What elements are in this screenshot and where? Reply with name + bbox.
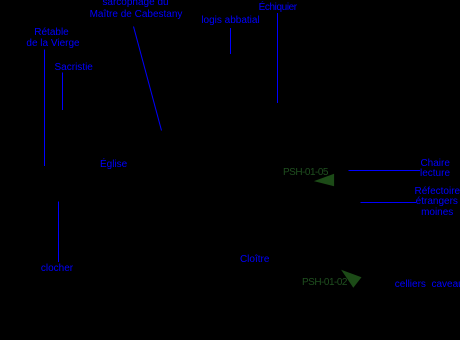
wire leader Sacristie bbox=[62, 73, 64, 111]
node label Maitre de Cabestany (line 2) bbox=[90, 10, 183, 20]
node label Retable (line 1) bbox=[34, 28, 68, 38]
node label logis abbatial bbox=[201, 16, 259, 26]
arrow hotspot PSH-01-05 bbox=[314, 174, 334, 187]
arrow hotspot PSH-01-02 bbox=[341, 270, 361, 288]
node label PSH-01-02 (green hotspot id) bbox=[302, 278, 347, 288]
wire leader logis abbatial bbox=[230, 28, 232, 54]
node label celliers caveau bbox=[395, 280, 460, 290]
node label sarcophage du (line 1) bbox=[102, 0, 168, 8]
node label Cloitre bbox=[240, 255, 269, 265]
node label clocher bbox=[41, 264, 73, 274]
wire leader Chaire lecture bbox=[349, 170, 421, 172]
node label lecture (line 2) bbox=[420, 169, 450, 179]
wire leader sarcophage (diagonal) bbox=[134, 27, 162, 131]
wire leader Echiquier bbox=[277, 13, 279, 103]
node label etrangers (line 2) bbox=[416, 197, 458, 207]
node label Eglise bbox=[100, 160, 127, 170]
node label Refectoire (line 1) bbox=[415, 187, 460, 197]
node label Sacristie bbox=[55, 63, 93, 73]
node label Chaire (line 1) bbox=[420, 159, 449, 169]
wire leader Refectoire bbox=[361, 202, 417, 204]
node label de la Vierge (line 2) bbox=[26, 39, 79, 49]
node label PSH-01-05 (green hotspot id) bbox=[283, 168, 328, 178]
wire leader Retable de la Vierge bbox=[44, 50, 46, 167]
wire leader clocher bbox=[58, 202, 60, 263]
node label moines (line 3) bbox=[421, 208, 453, 218]
node label Echiquier bbox=[259, 3, 297, 13]
